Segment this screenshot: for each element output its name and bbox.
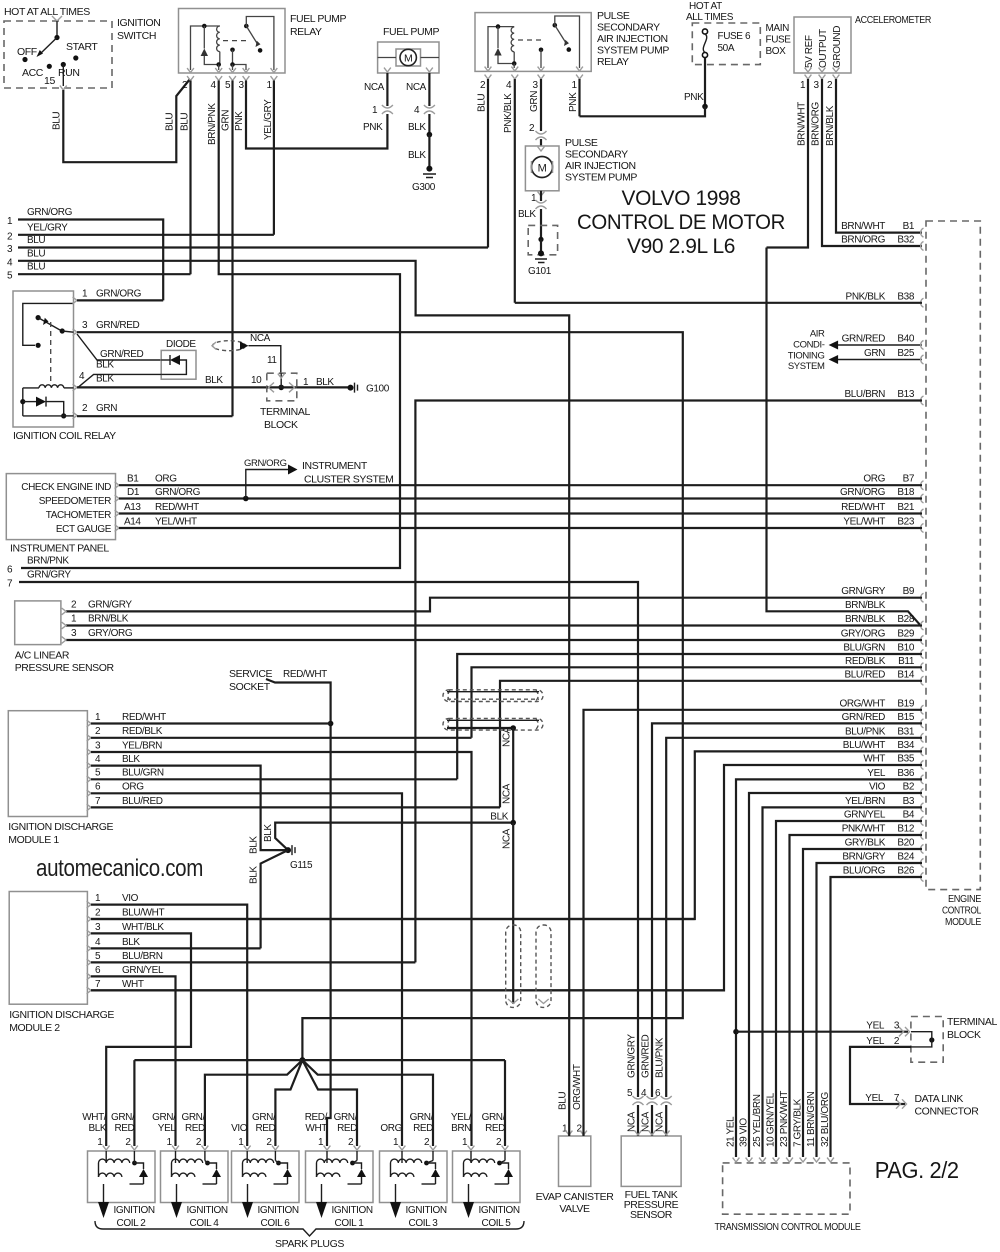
pulse air pump motor M2 <box>532 157 553 178</box>
wire BLU row 5 to fuel pump relay pin 2 <box>18 273 191 275</box>
svg-text:5: 5 <box>225 80 231 91</box>
svg-text:4: 4 <box>79 371 85 382</box>
ignition coil relay diode branch <box>20 399 25 404</box>
ignition discharge module 2 box <box>9 892 87 1005</box>
svg-text:4: 4 <box>95 937 101 948</box>
svg-text:BLK: BLK <box>122 937 140 948</box>
svg-text:GRN: GRN <box>221 110 232 131</box>
svg-text:GRN/YEL: GRN/YEL <box>122 965 164 976</box>
diode D1 loop out <box>161 360 186 374</box>
wire ORG IDM1 pin 6 to ignition coil 3 <box>91 793 402 1146</box>
ignition coil 4 primary winding <box>175 1151 177 1163</box>
svg-text:ALL TIMES: ALL TIMES <box>686 12 734 23</box>
svg-text:5: 5 <box>95 768 101 779</box>
IDM2 pin 6 GRN/YEL label <box>87 973 91 980</box>
wire RED/WHT IDM1 pin 1 <box>91 722 331 724</box>
instrument cluster arrow <box>288 465 298 475</box>
svg-text:15: 15 <box>44 75 55 87</box>
svg-text:7: 7 <box>7 579 13 590</box>
svg-text:OUTPUT: OUTPUT <box>818 29 829 68</box>
wire BLU row 3 to pulse relay pin 2 <box>18 246 488 248</box>
svg-text:BLU: BLU <box>558 1092 569 1110</box>
pulse air pump pin 1 lead <box>538 192 545 196</box>
wire BLK from NCA splice to G115 <box>275 823 513 851</box>
svg-text:YEL/BRN: YEL/BRN <box>845 796 885 807</box>
ignition coil 3 secondary winding <box>391 1173 414 1177</box>
ignition coil 1 pin chevrons <box>324 1146 331 1150</box>
svg-text:11 BRN/GRN: 11 BRN/GRN <box>806 1092 817 1147</box>
svg-text:GRN/: GRN/ <box>181 1112 205 1123</box>
svg-text:BLOCK: BLOCK <box>947 1029 981 1041</box>
svg-text:32 BLU/ORG: 32 BLU/ORG <box>820 1091 831 1147</box>
svg-text:YEL/: YEL/ <box>451 1112 472 1123</box>
svg-text:RED: RED <box>337 1123 357 1134</box>
svg-text:RED: RED <box>255 1123 275 1134</box>
wire BLU/BRN ECM B13 to ignition discharge module 2 pin 5 <box>415 401 922 963</box>
ground G101 <box>538 250 544 256</box>
inline connector capsule D vertical <box>536 925 551 1007</box>
svg-text:FUEL PUMP: FUEL PUMP <box>290 13 347 25</box>
svg-text:2: 2 <box>182 80 188 91</box>
svg-text:B38: B38 <box>897 291 914 302</box>
svg-text:GRY/ORG: GRY/ORG <box>88 628 133 639</box>
EVAP canister valve box <box>559 1136 591 1186</box>
wire GRN/ORG ignition coil relay pin 1 <box>77 299 163 301</box>
wire NCA continues down <box>512 823 514 1004</box>
ignition coil 4 box <box>161 1151 229 1203</box>
fuel pump motor M1 <box>396 49 421 66</box>
svg-text:FUSE: FUSE <box>766 35 792 46</box>
svg-text:COIL 3: COIL 3 <box>409 1218 439 1229</box>
svg-text:B21: B21 <box>897 502 914 513</box>
svg-text:NCA: NCA <box>627 1111 638 1132</box>
svg-text:COIL 6: COIL 6 <box>261 1218 291 1229</box>
ignition coil 4 spark output arrow <box>176 1184 178 1202</box>
svg-text:FUEL PUMP: FUEL PUMP <box>383 26 440 38</box>
svg-text:B20: B20 <box>897 838 914 849</box>
instrument panel box <box>6 474 115 540</box>
svg-text:BLU: BLU <box>476 94 487 112</box>
ignition coil 5 spark output arrow <box>468 1184 470 1202</box>
wire BLK IDM2 pin 4 to G115 <box>261 850 288 948</box>
svg-text:B19: B19 <box>897 698 914 709</box>
wire GRN/YEL IDM2 pin 6 to ignition coil 4 <box>91 976 176 1146</box>
svg-text:D1: D1 <box>127 487 140 498</box>
svg-text:11: 11 <box>267 355 277 366</box>
svg-text:GRN: GRN <box>96 403 117 414</box>
fuse 6 50A <box>702 29 707 34</box>
ignition coil 2 secondary winding <box>99 1173 122 1177</box>
splice junction on BLK <box>427 132 433 138</box>
svg-text:B25: B25 <box>897 348 914 359</box>
svg-text:B15: B15 <box>897 712 914 723</box>
wire BLU/RED IDM1 pin 7 <box>91 806 500 808</box>
svg-text:B13: B13 <box>897 389 914 400</box>
svg-text:ORG: ORG <box>863 474 885 485</box>
svg-text:6: 6 <box>95 782 101 793</box>
svg-text:GRY/BLK: GRY/BLK <box>845 838 886 849</box>
pulse relay pin chevrons <box>485 67 492 71</box>
svg-text:B10: B10 <box>897 643 914 654</box>
svg-text:CONNECTOR: CONNECTOR <box>915 1106 980 1118</box>
svg-text:IGNITION DISCHARGE: IGNITION DISCHARGE <box>8 821 113 833</box>
svg-text:2: 2 <box>95 907 101 918</box>
svg-text:GRN/GRY: GRN/GRY <box>27 570 71 581</box>
fuel pump relay internal pin2 riser <box>191 26 220 70</box>
svg-text:BRN/BLK: BRN/BLK <box>825 105 836 146</box>
svg-text:ORG/WHT: ORG/WHT <box>572 1064 583 1110</box>
spark plugs brace <box>95 1221 524 1236</box>
IDM1 pin 6 ORG label <box>87 790 91 797</box>
svg-text:GRY/ORG: GRY/ORG <box>841 629 886 640</box>
svg-text:YEL: YEL <box>158 1123 177 1134</box>
wire BRN/BLK accelerometer ground down to B28 merge <box>767 248 921 625</box>
ignition switch ACC contact <box>47 64 52 69</box>
svg-text:3: 3 <box>95 922 101 933</box>
EVAP pin leads <box>568 1129 570 1136</box>
svg-text:B9: B9 <box>903 586 915 597</box>
wire BRN/ORG accelerometer pin 3 to ECM B32 <box>822 79 922 246</box>
wire YEL junction to terminal block pin 3 <box>736 1031 908 1033</box>
wire GRN/RED bus to coils 2 and 5 <box>134 1059 505 1061</box>
svg-text:ACC: ACC <box>22 67 44 79</box>
svg-text:IGNITION: IGNITION <box>406 1205 447 1216</box>
wire GRN/ORG instrument panel D1 to ECM B18 <box>119 497 922 499</box>
svg-text:BLU/RED: BLU/RED <box>844 669 885 680</box>
svg-text:BRN/BLK: BRN/BLK <box>845 600 886 611</box>
ignition coil 3 box <box>380 1151 448 1203</box>
inline connector capsule A <box>443 690 543 702</box>
svg-text:BLU: BLU <box>27 235 45 246</box>
svg-text:MODULE 1: MODULE 1 <box>8 834 59 846</box>
ignition coil relay pin chevrons <box>73 297 77 304</box>
ignition switch OFF contact <box>22 57 27 62</box>
svg-text:2: 2 <box>529 123 535 134</box>
svg-text:GRN/RED: GRN/RED <box>96 320 139 331</box>
svg-text:TRANSMISSION CONTROL MODULE: TRANSMISSION CONTROL MODULE <box>715 1222 862 1233</box>
svg-text:B7: B7 <box>903 474 915 485</box>
fuel pump relay armature dashed link <box>223 40 250 42</box>
svg-text:OFF: OFF <box>17 46 37 58</box>
svg-text:4: 4 <box>211 80 217 91</box>
svg-text:21 YEL: 21 YEL <box>726 1116 737 1147</box>
svg-text:6: 6 <box>7 565 13 576</box>
svg-text:BLK: BLK <box>205 375 223 386</box>
ignition switch arm <box>40 38 57 55</box>
svg-text:RED: RED <box>185 1123 205 1134</box>
ignition coil 1 box <box>306 1151 374 1203</box>
svg-text:BLU: BLU <box>27 262 45 273</box>
wire BLU row 4 to EVAP canister valve pin 1 <box>18 261 569 1129</box>
ignition coil relay fixed contact <box>36 343 41 348</box>
svg-text:V90 2.9L L6: V90 2.9L L6 <box>627 234 735 258</box>
svg-text:G100: G100 <box>366 384 390 395</box>
wire GRN/RED branch to coil 6 <box>275 1060 302 1146</box>
svg-text:BRN/ORG: BRN/ORG <box>841 235 885 246</box>
wire BLU/WHT ECM B34 to ignition discharge module 2 pin 2 <box>91 751 922 919</box>
svg-text:IGNITION: IGNITION <box>258 1205 299 1216</box>
wire WHT/BLK IDM2 pin 3 to ignition coil 2 <box>91 933 191 1146</box>
svg-text:B4: B4 <box>903 810 915 821</box>
svg-text:IGNITION: IGNITION <box>332 1205 373 1216</box>
svg-text:A13: A13 <box>124 502 141 513</box>
ignition coil relay switch common <box>36 315 41 320</box>
svg-text:3: 3 <box>7 244 13 255</box>
capsule A spare wire <box>447 691 539 693</box>
svg-text:B29: B29 <box>897 629 914 640</box>
wire BLU ignition switch to fuel pump relay pin 2 <box>63 79 190 162</box>
svg-text:WHT/: WHT/ <box>82 1112 107 1123</box>
diode D1 box <box>161 350 196 379</box>
svg-text:INSTRUMENT: INSTRUMENT <box>302 460 368 472</box>
instrument panel pin chevrons <box>115 482 119 489</box>
capsule B spare wire <box>447 719 539 721</box>
svg-text:B36: B36 <box>897 768 914 779</box>
svg-text:2: 2 <box>348 1137 354 1148</box>
svg-text:PNK: PNK <box>363 122 383 133</box>
fuel pump relay diode <box>203 26 205 49</box>
svg-text:2: 2 <box>266 1137 272 1148</box>
svg-text:PNK/BLK: PNK/BLK <box>846 291 886 302</box>
svg-text:IGNITION: IGNITION <box>117 17 160 29</box>
svg-text:GRN/: GRN/ <box>410 1112 434 1123</box>
wire GRN ignition coil relay pin 2 row <box>77 415 233 417</box>
svg-text:1: 1 <box>97 1137 103 1148</box>
fuel pump relay pin chevrons <box>187 68 194 72</box>
svg-text:1: 1 <box>318 1137 324 1148</box>
pulse relay pin3 node <box>539 48 544 53</box>
svg-text:1: 1 <box>95 893 101 904</box>
svg-text:5V REF: 5V REF <box>804 35 815 68</box>
svg-text:BRN/WHT: BRN/WHT <box>797 102 808 146</box>
ignition coil 3 primary winding <box>401 1151 403 1163</box>
ignition coil 2 pin chevrons <box>103 1146 110 1150</box>
svg-text:SYSTEM: SYSTEM <box>788 361 825 372</box>
svg-text:BLK: BLK <box>263 824 274 842</box>
svg-text:AIR INJECTION: AIR INJECTION <box>597 33 668 45</box>
ignition switch terminal 15 lead <box>62 65 64 87</box>
ignition coil relay pin2 node <box>61 413 66 418</box>
svg-text:SOCKET: SOCKET <box>229 681 271 693</box>
svg-text:BLU/WHT: BLU/WHT <box>843 740 885 751</box>
svg-text:VOLVO 1998: VOLVO 1998 <box>622 186 741 210</box>
svg-text:RED/BLK: RED/BLK <box>122 726 163 737</box>
svg-text:YEL: YEL <box>866 1036 885 1047</box>
svg-text:BLU: BLU <box>52 112 63 130</box>
wire NCA down from capsule B <box>512 728 514 823</box>
svg-text:VIO: VIO <box>869 782 886 793</box>
svg-text:1: 1 <box>531 193 537 204</box>
svg-text:GRN: GRN <box>529 91 540 112</box>
svg-text:TIONING: TIONING <box>788 351 825 362</box>
ignition coil 1 diode <box>353 1163 362 1169</box>
svg-text:1: 1 <box>572 80 578 91</box>
wire NCA stub to terminal block pin 11 <box>249 346 281 374</box>
svg-text:YEL: YEL <box>866 1021 885 1032</box>
wire GRN/RED pin 3 branch to diode <box>77 334 161 360</box>
wire GRN/RED branch to coil 1 <box>302 1060 357 1146</box>
svg-text:M: M <box>538 163 547 175</box>
IDM1 pin 3 YEL/BRN label <box>87 749 91 756</box>
pulse relay switch arm <box>555 25 566 43</box>
ignition coil 6 pin2 lead and junction <box>274 1151 276 1161</box>
svg-text:7: 7 <box>894 1093 900 1104</box>
wire GRN/ORG to instrument cluster system <box>246 470 288 499</box>
svg-text:GRN/ORG: GRN/ORG <box>96 289 142 300</box>
svg-text:RED: RED <box>114 1123 134 1134</box>
main fuse box <box>692 23 760 65</box>
svg-text:INSTRUMENT PANEL: INSTRUMENT PANEL <box>10 543 109 555</box>
svg-text:ORG: ORG <box>122 782 144 793</box>
wire PNK/BLK to ECM B38 <box>515 302 922 304</box>
svg-text:BLOCK: BLOCK <box>264 419 298 431</box>
svg-text:BLU: BLU <box>165 113 176 131</box>
ignition coil 6 spark output arrow <box>247 1184 249 1202</box>
junction GRN/ORG cluster feed <box>243 496 249 502</box>
IDM2 pin 3 WHT/BLK label <box>87 930 91 937</box>
svg-text:7 GRY/BLK: 7 GRY/BLK <box>793 1098 804 1147</box>
accelerometer pin chevrons <box>805 68 812 72</box>
svg-text:YEL/WHT: YEL/WHT <box>843 517 885 528</box>
svg-text:1: 1 <box>462 1137 468 1148</box>
svg-text:BRN/PNK: BRN/PNK <box>207 103 218 145</box>
pulse relay diode <box>497 27 499 48</box>
svg-text:MAIN: MAIN <box>766 23 790 34</box>
AC sensor pin chevrons <box>62 608 66 615</box>
svg-text:BLK: BLK <box>249 866 260 884</box>
ignition switch box <box>4 21 112 88</box>
svg-text:B31: B31 <box>897 726 914 737</box>
ignition coil relay internal pin1 path <box>23 303 74 345</box>
ignition coil 5 diode <box>500 1163 509 1169</box>
svg-text:B24: B24 <box>897 852 914 863</box>
wire PNK fuse to pulse relay pin 1 <box>704 58 706 107</box>
svg-text:YEL/GRY: YEL/GRY <box>263 99 274 140</box>
svg-text:10 GRN/YEL: 10 GRN/YEL <box>766 1092 777 1147</box>
svg-text:NCA: NCA <box>641 1111 652 1132</box>
wire YEL/WHT instrument panel A14 to ECM B23 <box>119 527 922 529</box>
svg-text:SWITCH: SWITCH <box>117 30 156 42</box>
ignition coil 5 box <box>453 1151 521 1203</box>
svg-text:CONDI-: CONDI- <box>793 340 825 351</box>
junction PNK <box>702 104 708 110</box>
svg-text:3: 3 <box>95 740 101 751</box>
svg-text:FUSE 6: FUSE 6 <box>718 31 751 42</box>
svg-text:PNK: PNK <box>234 111 245 131</box>
IDM2 pin 7 WHT label <box>87 987 91 994</box>
svg-text:DIODE: DIODE <box>166 339 196 350</box>
ignition coil 3 spark output arrow <box>395 1184 397 1202</box>
svg-text:GRN/RED: GRN/RED <box>641 1035 652 1078</box>
wire RED/WHT service socket to ignition coil 1 <box>266 679 331 1146</box>
pulse air pump box <box>525 146 559 191</box>
svg-text:B35: B35 <box>897 754 914 765</box>
wire GRN/GRY AC sensor pin2 to ECM B9 <box>66 598 922 612</box>
ground G100 <box>348 385 354 391</box>
svg-text:3: 3 <box>814 80 820 91</box>
svg-text:AIR INJECTION: AIR INJECTION <box>565 160 636 172</box>
svg-text:1: 1 <box>238 1137 244 1148</box>
pulse relay armature dashed link <box>518 39 545 41</box>
svg-text:BLU/BRN: BLU/BRN <box>844 389 885 400</box>
svg-text:B18: B18 <box>897 487 914 498</box>
svg-text:TERMINAL: TERMINAL <box>260 406 310 418</box>
svg-text:7: 7 <box>95 796 101 807</box>
svg-text:2: 2 <box>125 1137 131 1148</box>
svg-text:5: 5 <box>627 1088 633 1099</box>
wire GRN/GRY row 7 to fuel tank pressure sensor pin 5 <box>19 582 638 1097</box>
svg-text:YEL: YEL <box>865 1093 884 1104</box>
svg-text:GRN/RED: GRN/RED <box>842 712 885 723</box>
svg-text:2: 2 <box>95 726 101 737</box>
svg-text:BLU/BRN: BLU/BRN <box>122 951 163 962</box>
svg-text:BLU/RED: BLU/RED <box>122 796 163 807</box>
fuel pump relay switch arm <box>246 26 257 44</box>
IDM2 pin 4 BLK label <box>87 945 91 952</box>
ignition switch common contact <box>54 35 59 40</box>
svg-text:M: M <box>404 53 412 65</box>
AC linear pressure sensor box <box>15 601 61 645</box>
svg-text:BLK: BLK <box>490 812 508 823</box>
wire PNK pulse relay pin 1 segment <box>578 79 580 116</box>
svg-text:BLU: BLU <box>180 113 191 131</box>
svg-text:2: 2 <box>7 231 13 242</box>
wire BLK terminal block to ground G100 <box>297 386 351 388</box>
svg-text:RED/WHT: RED/WHT <box>155 502 199 513</box>
ignition coil 2 diode <box>135 1163 144 1169</box>
svg-text:BLK: BLK <box>96 360 114 371</box>
wire BLU/RED ECM B14 to ignition discharge module 1 pin 7 <box>500 681 922 808</box>
svg-text:6: 6 <box>95 965 101 976</box>
svg-text:AIR: AIR <box>810 329 825 340</box>
svg-text:COIL 5: COIL 5 <box>482 1218 512 1229</box>
svg-text:BLU/GRN: BLU/GRN <box>843 643 885 654</box>
svg-text:BLK: BLK <box>408 150 426 161</box>
ground G115 <box>285 847 291 853</box>
svg-text:2: 2 <box>424 1137 430 1148</box>
wire GRN fuel pump relay pin 5 to ignition coil relay pin 2 <box>231 81 233 417</box>
svg-text:YEL/GRY: YEL/GRY <box>27 222 68 233</box>
wire BLU/BRN IDM2 pin 5 <box>91 961 415 963</box>
svg-text:4: 4 <box>414 105 420 116</box>
svg-text:SENSOR: SENSOR <box>630 1209 673 1221</box>
ignition coil 6 pin chevrons <box>244 1146 251 1150</box>
svg-text:B23: B23 <box>897 517 914 528</box>
wire GRN/RED ignition coil relay pin 3 to spark plug feed <box>77 332 683 1060</box>
ignition coil 2 spark output arrow <box>103 1184 105 1202</box>
IDM1 pin 4 BLK label <box>87 762 91 769</box>
svg-text:NCA: NCA <box>502 726 513 747</box>
junction RED/WHT at IDM1 pin 1 <box>328 721 334 727</box>
svg-text:1: 1 <box>167 1137 173 1148</box>
svg-text:BOX: BOX <box>766 46 787 57</box>
svg-text:SYSTEM PUMP: SYSTEM PUMP <box>597 45 669 57</box>
wire YEL/GRY row 2 to fuel pump relay pin 1 <box>18 234 274 236</box>
svg-text:GRN/: GRN/ <box>252 1112 276 1123</box>
svg-text:BLK: BLK <box>518 209 536 220</box>
terminal block T2 internal <box>929 1037 934 1042</box>
svg-text:BLU/PNK: BLU/PNK <box>655 1037 666 1078</box>
svg-text:GROUND: GROUND <box>832 26 843 68</box>
fuel tank pressure sensor box <box>621 1136 681 1186</box>
ignition coil 4 pin2 lead and junction <box>204 1151 206 1161</box>
ignition coil 4 diode <box>208 1163 217 1169</box>
svg-text:1: 1 <box>800 80 806 91</box>
ignition coil 1 pin2 lead and junction <box>356 1151 358 1161</box>
svg-text:3: 3 <box>533 80 539 91</box>
svg-text:RED: RED <box>413 1123 433 1134</box>
ground G101 box <box>528 225 557 254</box>
